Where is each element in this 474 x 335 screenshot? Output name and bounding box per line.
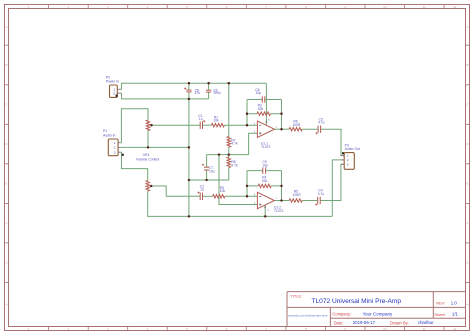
svg-text:charlbur: charlbur: [418, 320, 434, 325]
svg-text:REV:: REV:: [436, 300, 445, 305]
svg-text:H: H: [466, 303, 468, 307]
wire V+ riser to U1.1 pin8: [265, 83, 267, 125]
svg-text:10: 10: [383, 5, 387, 9]
svg-text:B: B: [5, 63, 7, 67]
svg-text:2019-06-17: 2019-06-17: [353, 320, 376, 325]
wire GND rail from P2 pin2: [121, 93, 209, 99]
svg-text:52k: 52k: [258, 107, 264, 111]
svg-text:TL072: TL072: [261, 145, 271, 149]
svg-text:3: 3: [114, 150, 116, 154]
svg-text:F: F: [6, 221, 8, 225]
wire U1.1 feedback left: [246, 100, 248, 126]
resistor R3: [213, 195, 225, 199]
svg-text:1.0: 1.0: [451, 300, 458, 305]
svg-text:B: B: [466, 63, 468, 67]
svg-text:Drawn By:: Drawn By:: [390, 320, 409, 325]
svg-text:2: 2: [347, 158, 349, 162]
svg-text:easyeda.com/charlbur/pre-amp: easyeda.com/charlbur/pre-amp: [288, 314, 328, 318]
svg-text:F: F: [467, 221, 469, 225]
wire bias riser to U1.1 +input: [249, 133, 258, 154]
svg-text:1: 1: [114, 141, 116, 145]
capacitor C6: [206, 89, 211, 91]
wire P1 pin2 ground row: [120, 146, 189, 148]
svg-text:Audio Out: Audio Out: [345, 147, 360, 151]
svg-text:4.7u: 4.7u: [318, 121, 325, 125]
svg-text:10k: 10k: [220, 189, 226, 193]
resistor R1: [211, 123, 224, 127]
wire R4 row: [247, 185, 282, 187]
wire V+ rail from P2 pin1: [121, 83, 267, 89]
svg-text:10p: 10p: [262, 164, 268, 168]
svg-text:H: H: [5, 303, 7, 307]
wire bias row: [207, 154, 249, 156]
capacitor C8: [261, 96, 263, 102]
svg-text:4.7k: 4.7k: [231, 163, 238, 167]
svg-text:Sheet:: Sheet:: [434, 312, 445, 317]
svg-text:1/1: 1/1: [452, 312, 459, 317]
wire P1 pin1 to VR1.1 top: [120, 109, 148, 143]
wire junction dots: [188, 82, 190, 84]
op-amp U1.2: [257, 192, 274, 208]
svg-text:TL072: TL072: [274, 209, 284, 213]
capacitor C5: [186, 89, 191, 91]
svg-text:100R: 100R: [293, 193, 302, 197]
potentiometer VR1.2: [146, 181, 150, 192]
svg-text:100n: 100n: [213, 91, 221, 95]
wire VR1.2 wiper jog to C2: [151, 186, 200, 196]
wire U1.2 feedback left: [246, 171, 248, 197]
connector P1 Audio In: [108, 139, 118, 156]
resistor R2: [257, 112, 271, 116]
wire R2 row: [247, 113, 282, 115]
svg-text:11: 11: [423, 327, 426, 331]
resistor R5: [289, 199, 302, 203]
svg-text:A: A: [5, 25, 7, 29]
wire R8 bottom to gnd row: [189, 168, 229, 181]
resistor R7: [227, 137, 231, 148]
title block: [287, 291, 466, 293]
svg-text:100R: 100R: [292, 123, 301, 127]
wire C4 to P3 pin3: [320, 164, 344, 200]
wire C9 row: [247, 170, 282, 172]
svg-text:12: 12: [453, 5, 457, 9]
svg-text:A: A: [466, 25, 468, 29]
wire C3 to P3 pin1: [321, 129, 345, 155]
svg-text:47u: 47u: [195, 91, 201, 95]
capacitor C3: [317, 126, 319, 133]
capacitor C9: [262, 167, 264, 173]
svg-text:E: E: [466, 182, 468, 186]
wire P1 pin3 to VR1.2 top: [120, 152, 147, 180]
wire P3 pin2 to ground bus: [332, 160, 344, 217]
wire bias riser to U1.2 +input: [219, 155, 257, 205]
wire U1.1 feedback right: [281, 100, 283, 130]
resistor R8: [227, 157, 231, 168]
svg-text:52k: 52k: [262, 179, 268, 183]
resistor R4: [258, 184, 271, 188]
wire C1 to R1: [203, 124, 212, 126]
wire R1 to U1.1 -input: [224, 124, 257, 126]
wire U1.2 feedback right: [281, 171, 283, 201]
svg-text:10p: 10p: [256, 91, 262, 95]
wire VR1.2 bottom + ground bus: [148, 191, 333, 216]
svg-text:1u: 1u: [199, 117, 203, 121]
wire main ground vertical: [188, 99, 190, 216]
connector P2 Power In: [110, 85, 118, 97]
junction dots overlay: [188, 82, 190, 84]
svg-text:2: 2: [114, 146, 116, 150]
wire R5 to C4: [302, 200, 318, 202]
wire R7-R8 link through bias node: [228, 147, 230, 157]
capacitor C7: [204, 166, 209, 168]
svg-text:Audio In: Audio In: [103, 133, 116, 137]
svg-text:E: E: [5, 182, 7, 186]
svg-text:2: 2: [113, 91, 115, 95]
svg-text:10: 10: [383, 327, 387, 331]
svg-text:12: 12: [453, 327, 457, 331]
svg-text:Date:: Date:: [334, 320, 344, 325]
svg-text:11: 11: [423, 5, 426, 9]
wire R6 to C3: [302, 128, 318, 130]
svg-text:Your Company: Your Company: [363, 312, 393, 317]
wire C7 leads: [206, 155, 208, 180]
wire U1.2 pin4 stub to bus: [264, 205, 266, 216]
wire U1.2 output to R5: [274, 200, 289, 202]
capacitor C1: [199, 122, 201, 129]
svg-text:4.7u: 4.7u: [318, 192, 325, 196]
capacitor C4: [317, 197, 319, 204]
svg-text:3: 3: [347, 162, 349, 166]
svg-text:TL072 Universal Mini Pre-Amp: TL072 Universal Mini Pre-Amp: [312, 298, 402, 305]
wire VR1.1 wiper to C1: [152, 124, 201, 126]
wire VR1.1 bottom to ground row: [147, 131, 149, 148]
potentiometer VR1.1: [146, 120, 150, 131]
svg-text:TITLE:: TITLE:: [290, 293, 302, 298]
svg-text:1u: 1u: [200, 188, 204, 192]
wire R7 riser from V+ rail: [228, 83, 230, 136]
svg-text:10u: 10u: [209, 169, 215, 173]
svg-text:Volume Control: Volume Control: [136, 158, 159, 162]
svg-text:Company:: Company:: [332, 311, 351, 316]
op-amp U1.1: [257, 121, 274, 137]
capacitor C2: [199, 193, 201, 200]
wire U1.1 output to R6: [274, 128, 289, 130]
wire R3 to U1.2 -input: [225, 195, 258, 197]
wire C8 row: [247, 99, 282, 101]
resistor R6: [289, 127, 302, 131]
svg-text:4.7k: 4.7k: [231, 142, 238, 146]
wire C5 leads: [188, 83, 190, 99]
wire C2 to R3: [203, 195, 213, 197]
wire C6 leads: [208, 83, 210, 99]
connector P3 Audio Out: [344, 153, 354, 170]
svg-text:10k: 10k: [213, 119, 219, 123]
svg-text:Power In: Power In: [106, 80, 119, 84]
